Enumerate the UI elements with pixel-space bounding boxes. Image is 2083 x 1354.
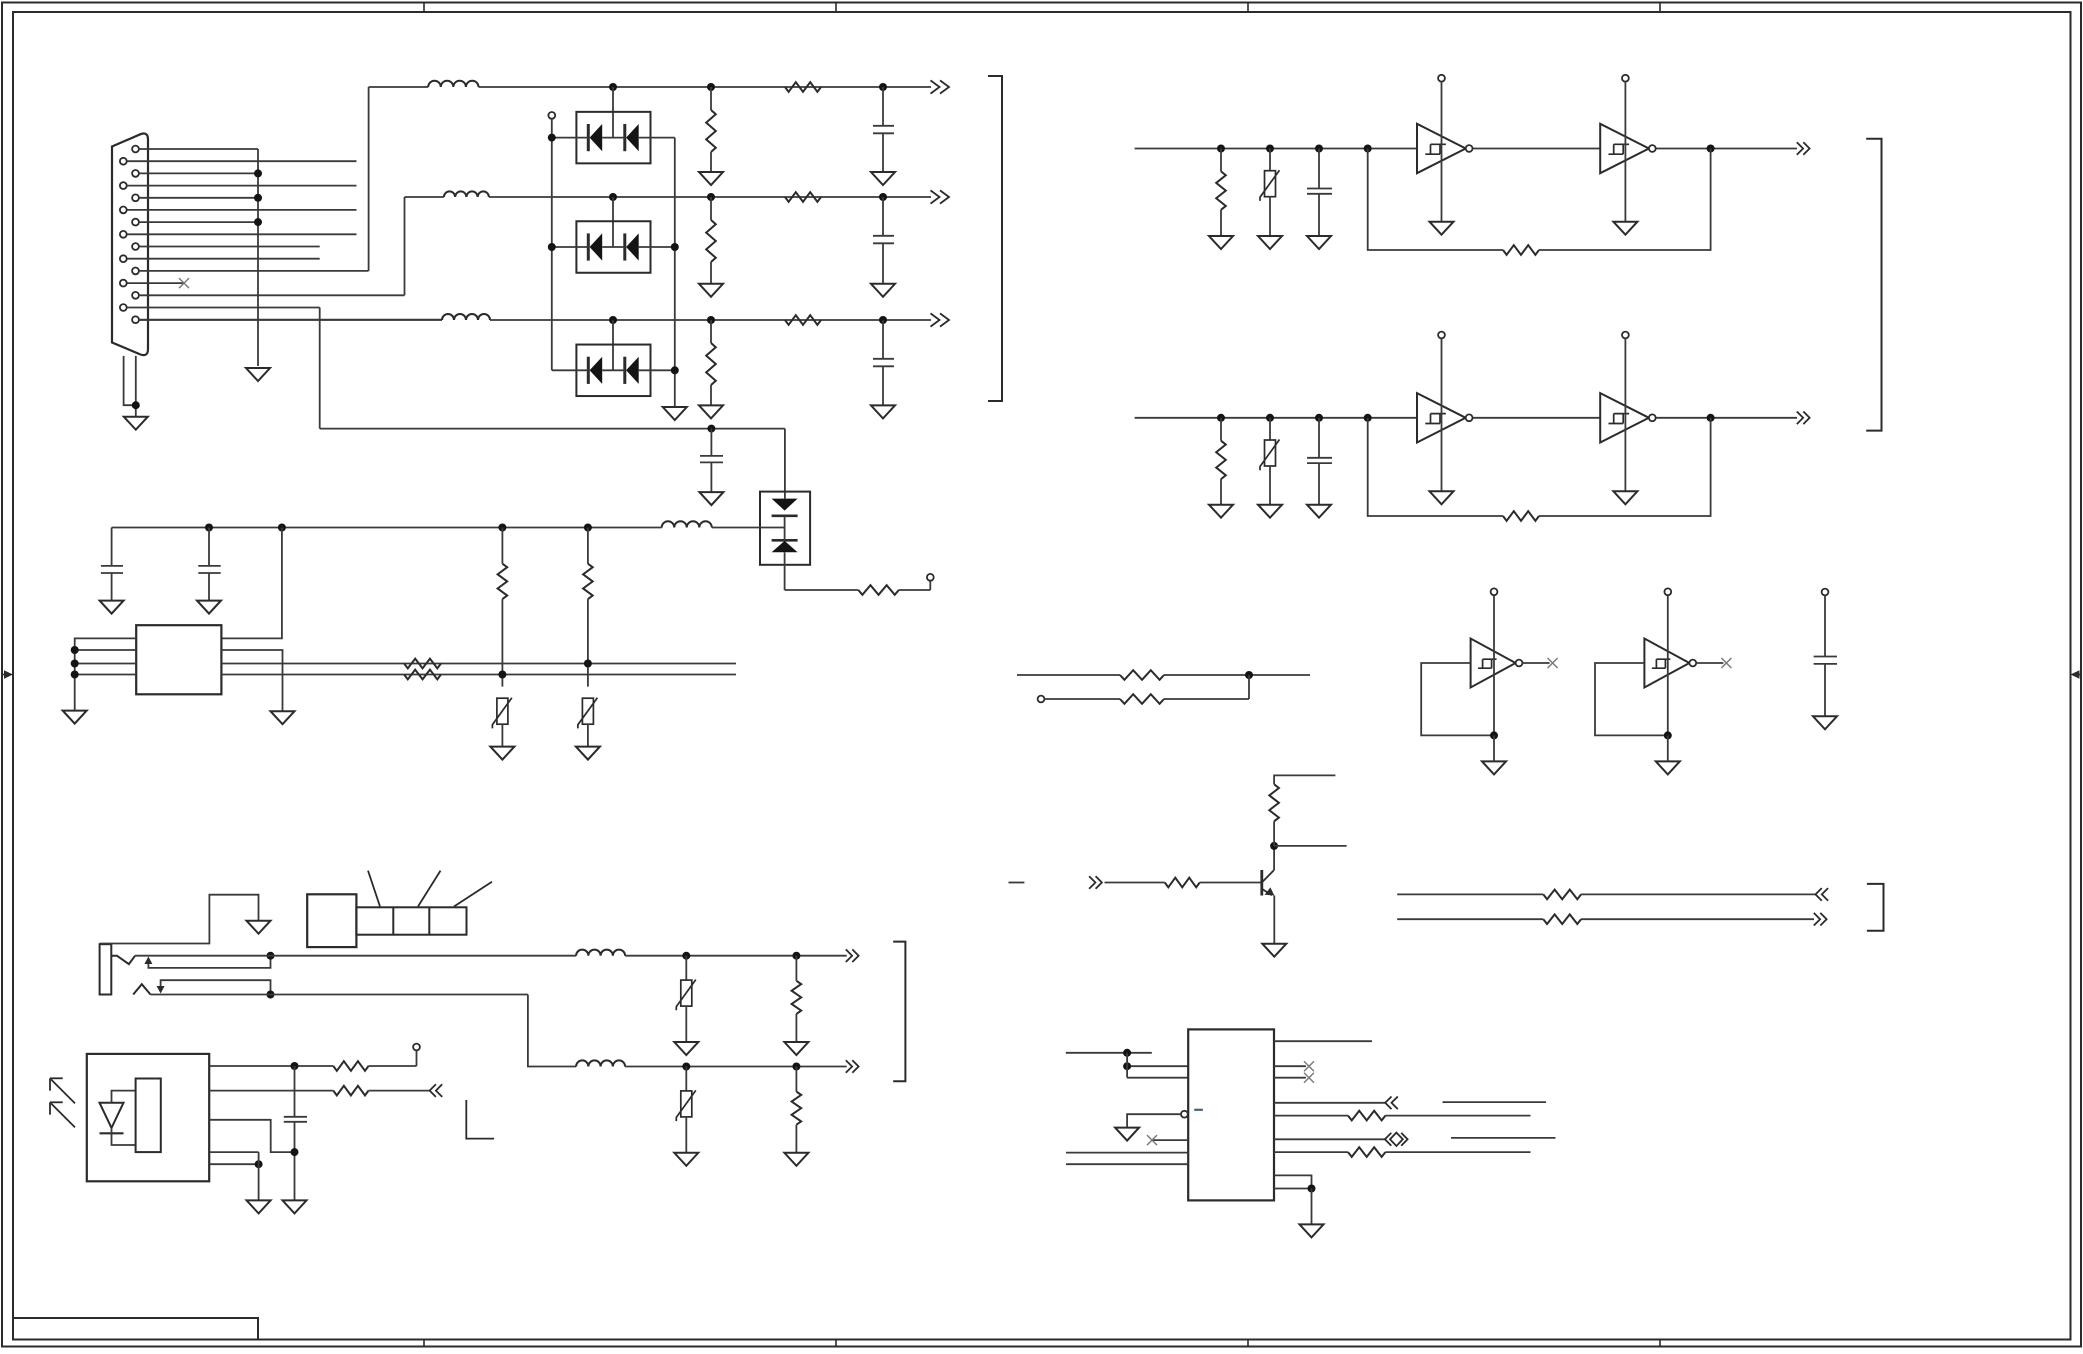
resistor feedback ch1 (1503, 245, 1539, 255)
wire U2 gnd vertical (258, 1152, 260, 1200)
wire pin 8 net (127, 233, 356, 235)
wire cell1 out stub (1522, 662, 1549, 664)
wire bus to U1 pin1 (221, 528, 282, 639)
wire TVS right vertical (674, 138, 676, 407)
inductor bottom ch y955.7 (576, 950, 625, 956)
node junction rx ch2 x1319 (1315, 414, 1323, 422)
wire shield bus vertical (257, 149, 259, 366)
wire res pair line A (1017, 674, 1120, 676)
node junction rx ch1 x1319 (1315, 145, 1323, 153)
wire U3 pin r4 (1274, 1102, 1385, 1104)
ground buffer ch1 x1625.4 (1613, 222, 1637, 235)
node junction TVS left 1 (548, 134, 556, 142)
ground C5 (100, 601, 124, 614)
capacitor C2 (882, 197, 884, 236)
wire collector out (1274, 845, 1347, 847)
wire pin 14 net (127, 307, 319, 309)
relay slash 1 (368, 871, 380, 907)
border zone tick top 1 (423, 3, 425, 13)
resistor rx ch2 pulldown (1220, 418, 1222, 441)
ground ch2 cap (871, 284, 895, 297)
resistor R3a pulldown (710, 320, 712, 343)
wire feedback ch1 right (1539, 149, 1711, 251)
wire channel 2 cont (489, 196, 931, 198)
switch arrow 1 (144, 957, 152, 965)
wire channel 1 (369, 86, 429, 88)
bracket stub lines (1867, 884, 1884, 931)
node junction gndbus y650 (71, 646, 79, 654)
varistor rx ch2 (1269, 418, 1271, 441)
terminal net4 (927, 574, 934, 581)
resistor pair B (1120, 694, 1164, 704)
node junction rx ch2 x1367.7 (1364, 414, 1372, 422)
wire U2 pin2 (209, 1090, 333, 1092)
wire channel 1 cont (479, 86, 932, 88)
wire collector up (1273, 821, 1275, 846)
TVS D2 diode a (588, 233, 602, 260)
wire Q1 base (1105, 882, 1165, 884)
wire R6 to terminal (369, 1065, 417, 1067)
pin1 marker (1194, 1109, 1203, 1111)
ground cell1 (1482, 761, 1506, 774)
node junction rx ch2 x1270 (1266, 414, 1274, 422)
wire channel 3 (140, 319, 442, 321)
TVS D1 diode b (625, 124, 639, 151)
no-connect X cell1 (1548, 658, 1558, 668)
photodiode U2 (100, 1103, 124, 1128)
terminal U3 enable (1181, 1111, 1188, 1118)
transistor Q1 (1262, 870, 1275, 896)
node junction tail (132, 401, 140, 409)
resistor pair A (1120, 670, 1164, 680)
node junction ch2 x613 (609, 193, 617, 201)
resistor R1b series (785, 82, 821, 92)
wire varistor to gnd x502.4 (501, 724, 503, 747)
node junction rx ch1 x1270 (1266, 145, 1274, 153)
connector J1 pin 12 (120, 280, 127, 287)
wire res pair line B (1044, 698, 1120, 700)
no-connect X U3 r2 (1304, 1061, 1314, 1071)
TVS D3 diode a (588, 357, 602, 384)
offpage output line 2 (1814, 913, 1827, 926)
wire U3 stub A (1066, 1052, 1152, 1054)
resistor divider x587.9 (587, 528, 589, 564)
wire net4 horizontal (320, 428, 785, 430)
node junction pin 7 bus (254, 218, 262, 226)
switch loop 2 (161, 980, 271, 994)
node junction ch3 x613 (609, 316, 617, 324)
border zone tick top 4 (1659, 3, 1661, 13)
connector J1 pin 15 (132, 316, 139, 323)
node junction x587.9 (584, 660, 592, 668)
ground varistor bottom y1066.5 (674, 1153, 698, 1166)
ground buffer ch2 x1625.4 (1613, 491, 1637, 504)
wire channel 2 (405, 196, 444, 198)
wire U3 pin r3 (1274, 1077, 1306, 1079)
schmitt buffer ch1b (1600, 124, 1649, 173)
connector J1 pin 10 (120, 255, 127, 262)
resistor R4 (858, 585, 898, 595)
offpage output ch1 (931, 80, 950, 93)
ground varistor x587.9 (576, 747, 600, 760)
wire U3 stub D (1066, 1163, 1188, 1165)
ground buffer ch2 x1441.5 (1430, 491, 1454, 504)
ground rx ch2 varistor (1258, 505, 1282, 518)
capacitor C5 (111, 528, 113, 566)
wire ch2 riser (404, 197, 406, 295)
resistor R1a pulldown (710, 87, 712, 110)
no-connect X U3 r3 (1304, 1073, 1314, 1083)
sensor inner block (136, 1079, 161, 1153)
wire sense line A (221, 663, 736, 665)
capacitor C3 (882, 320, 884, 359)
wire U3 pin r6 (1274, 1138, 1385, 1140)
wire cell1 vertical (1493, 595, 1495, 735)
offpage output rx ch2 (1797, 412, 1810, 425)
wire U3 AB join (1126, 1053, 1128, 1078)
relay slash 3 (454, 882, 492, 907)
wire U2 pin5 (209, 1163, 258, 1165)
wire TVS D3 internal (552, 369, 589, 371)
offpage input line 1 (1816, 888, 1829, 901)
wire cell2 gnd stem (1667, 735, 1669, 761)
wire U1 left pin4 (75, 674, 137, 676)
border zone tick bottom 4 (1659, 1340, 1661, 1347)
node junction bus x281.9 (278, 524, 286, 532)
wire U3 stub B (1127, 1065, 1188, 1067)
varistor bottom y1066.5 (685, 1067, 687, 1092)
regulator U1 box (136, 625, 221, 694)
node junction U2 pin1 (291, 1062, 299, 1070)
ground ch1 resistor (699, 172, 723, 185)
ground resistor bottom y955.7 (784, 1042, 808, 1055)
resistor R11 (1543, 914, 1581, 924)
resistor divider x502.4 (501, 528, 503, 564)
TVS array D1 box (576, 112, 650, 164)
offpage input Q1 (1089, 876, 1102, 889)
wire U3 pin r7 (1274, 1151, 1348, 1153)
relay contact band (356, 907, 466, 934)
resistor bottom y955.7 (795, 956, 797, 981)
connector J1 pin 8 (120, 231, 127, 238)
capacitor rx ch1 (1318, 149, 1320, 189)
resistor bottom y1066.5 (795, 1067, 797, 1092)
wire Q1 collector (1273, 846, 1275, 870)
ground rx ch1 resistor (1209, 236, 1233, 249)
node junction TVS right 3 (671, 366, 679, 374)
terminal pullup ch2 x1625.4 (1622, 332, 1629, 339)
node junction ch1 x711 (707, 83, 715, 91)
IC U3 box (1188, 1029, 1274, 1200)
corner mark (466, 1100, 494, 1139)
resistor R3b series (785, 315, 821, 325)
wire R9 top (1274, 775, 1335, 784)
bidir connector symbol U3 r6 (1385, 1133, 1408, 1146)
border center arrow left (2, 670, 13, 678)
ground U2 (247, 1200, 271, 1213)
node junction pin 5 bus (254, 194, 262, 202)
node junction rx ch1 x1221 (1217, 145, 1225, 153)
wire rxline ch1 mid (1473, 148, 1601, 150)
ground rx ch1 varistor (1258, 236, 1282, 249)
wire diode bottom (112, 1128, 136, 1145)
border center arrow right (2071, 670, 2082, 678)
wire D4 out (785, 589, 859, 591)
wire net4 drop (784, 429, 786, 499)
schmitt buffer ch2b (1600, 393, 1649, 442)
node junction resistor y1066.5 (792, 1063, 800, 1071)
TVS D4 diode bottom (772, 540, 798, 552)
photodiode bar (100, 1132, 124, 1134)
wire feedback ch1 (1368, 149, 1503, 251)
wire U2 pin4 (209, 1151, 258, 1153)
varistor rx ch1 (1269, 149, 1271, 172)
wire Q1 emitter (1273, 896, 1275, 944)
wire buffer power ch2 x1441.5 (1441, 338, 1443, 491)
border zone tick top 2 (835, 3, 837, 13)
terminal TVS left (548, 112, 555, 119)
connector J1 pin 13 (132, 292, 139, 299)
node junction line1 loop (267, 952, 275, 960)
capacitor C7 (294, 1066, 296, 1117)
inductor L2 (444, 191, 489, 197)
border zone tick bottom 1 (423, 1340, 425, 1347)
light arrow 1 (50, 1078, 75, 1103)
ground ch1 cap (871, 172, 895, 185)
wire line2 drop (528, 995, 576, 1067)
node junction collector (1270, 842, 1278, 850)
wire stub line 1 (1397, 893, 1543, 895)
ground U1 left (63, 711, 87, 724)
ground U3 enable (1115, 1128, 1139, 1141)
wire rxline ch2 out (1656, 417, 1797, 419)
terminal decoupling cap (1822, 589, 1829, 596)
wire buffer power ch1 x1625.4 (1624, 82, 1626, 222)
offpage output bottom y955.7 (846, 949, 859, 962)
resistor R8 base (1165, 878, 1200, 888)
wire U3 pin b1 (1274, 1175, 1312, 1188)
resistor R2a pulldown (710, 197, 712, 220)
ground rx ch2 resistor (1209, 505, 1233, 518)
resistor R10 (1543, 890, 1581, 900)
jack contact 1 (111, 956, 135, 964)
schmitt buffer ch1a (1417, 124, 1466, 173)
wire TVS D1 internal (552, 137, 589, 139)
node junction U3 B (1123, 1062, 1131, 1070)
bracket channel outputs (988, 76, 1002, 401)
wire pin 2 net (127, 160, 356, 162)
terminal pullup ch1 x1625.4 (1622, 75, 1629, 82)
node junction TVS right 2 (671, 243, 679, 251)
resistor R9 collector (1269, 784, 1279, 821)
wire U3 enable (1127, 1114, 1181, 1127)
ground varistor x502.4 (490, 747, 514, 760)
wire pin 15 net (140, 319, 442, 321)
TVS array D2 box (576, 221, 650, 273)
capacitor C6 (208, 528, 210, 566)
TVS D3 diode b (625, 357, 639, 384)
bracket bottom outputs (893, 942, 905, 1082)
ground ch2 resistor (699, 284, 723, 297)
terminal cell1 (1491, 588, 1498, 595)
varistor x502.4 (492, 698, 512, 729)
wire line2 (151, 994, 528, 996)
capacitor rx ch2 (1318, 418, 1320, 458)
node junction C7 bottom (291, 1148, 299, 1156)
wire U1 pin2 to gnd (221, 650, 282, 711)
wire pin 7 net (140, 221, 258, 223)
node junction cell2 (1664, 731, 1672, 739)
relay band divider 2 (428, 907, 430, 934)
wire net4 riser (319, 308, 321, 429)
ground shield bus (246, 368, 270, 381)
offpage input U2 (430, 1084, 443, 1097)
node junction rx ch2 x1221 (1217, 414, 1225, 422)
wire ch1 riser (368, 87, 370, 271)
wire U2 pin1 (209, 1065, 333, 1067)
wire right stub 2 (1451, 1137, 1556, 1139)
ground TVS right (663, 407, 687, 420)
node junction line2 loop (267, 991, 275, 999)
node junction res pair (1245, 671, 1253, 679)
connector J1 body (112, 134, 148, 356)
wire rxline ch2 (1135, 417, 1417, 419)
node junction x502.4 (498, 671, 506, 679)
ground connector tail (124, 417, 148, 430)
node junction bus x587.9 (584, 524, 592, 532)
wire pin 6 net (127, 209, 356, 211)
connector J1 pin 14 (120, 304, 127, 311)
relay box K1 (307, 894, 356, 947)
offpage input U3 r4 (1385, 1097, 1398, 1110)
jack J2 body (100, 944, 112, 994)
node junction resistor y955.7 (792, 952, 800, 960)
connector J1 pin 3 (132, 170, 139, 177)
node junction bus x502.4 (498, 524, 506, 532)
wire jack sleeve to gnd jog (100, 895, 259, 944)
node junction cell1 (1490, 731, 1498, 739)
ground buffer ch1 x1441.5 (1430, 222, 1454, 235)
ground C7 (283, 1200, 307, 1213)
inductor bottom ch y1066.5 (576, 1060, 625, 1066)
wire L4 to D4 (712, 527, 785, 529)
offpage output ch3 (931, 313, 950, 326)
wire line1 (135, 955, 576, 957)
schmitt inverter cell2 (1644, 639, 1689, 688)
resistor R13 (1348, 1147, 1385, 1157)
resistor R6 (333, 1061, 368, 1071)
wire U3 pin r1 (1274, 1040, 1372, 1042)
node junction net4 cap (707, 425, 715, 433)
wire bottom ch y955.7 (625, 955, 847, 957)
connector J1 pin 7 (132, 219, 139, 226)
node junction bus x209 (205, 524, 213, 532)
ground U3 (1300, 1224, 1324, 1237)
wire cell1 gnd stem (1493, 735, 1495, 761)
ground jack sleeve (247, 921, 271, 934)
node junction rx ch1 x1710.6 (1707, 145, 1715, 153)
resistor R2b series (785, 192, 821, 202)
wire R4 to terminal (899, 589, 931, 591)
capacitor C4 (710, 429, 712, 456)
ground rx ch1 cap (1307, 236, 1331, 249)
wire U3 pin r2 (1274, 1065, 1306, 1067)
TVS pair D4 box (760, 492, 810, 565)
wire U1 left pin3 (75, 663, 137, 665)
offpage output rx ch1 (1797, 142, 1810, 155)
wire right stub 1 (1443, 1101, 1547, 1103)
inductor L1 (428, 81, 478, 87)
wire diode top (112, 1091, 136, 1103)
wire rxline ch1 (1135, 148, 1417, 150)
node junction gndbus y674.5 (71, 671, 79, 679)
resistor R12 (1348, 1111, 1385, 1121)
varistor x587.9 (578, 698, 598, 729)
inductor L4 (662, 521, 712, 527)
no-connect X pin 12 (179, 278, 189, 288)
terminal res pair B (1038, 696, 1045, 703)
wire rxline ch1 out (1656, 148, 1797, 150)
wire ch3 TVS tap (612, 320, 614, 370)
wire connector tail left (124, 356, 136, 405)
wire feedback ch2 (1368, 418, 1503, 516)
wire cell2 out stub (1696, 662, 1723, 664)
wire R8 to base (1200, 882, 1262, 884)
switch arrow 2 (157, 986, 165, 994)
wire cell2 feedback (1595, 663, 1668, 735)
ground ch3 cap (871, 405, 895, 418)
wire TVS D2 internal (552, 246, 589, 248)
ground U1 pin2 (271, 711, 295, 724)
node junction ch1 x883 (879, 83, 887, 91)
ground rx ch2 cap (1307, 505, 1331, 518)
wire U3 pin b2 (1274, 1188, 1312, 1190)
wire pin 13 net (140, 294, 405, 296)
wire pin 12 net (127, 282, 184, 284)
node junction ch3 x883 (879, 316, 887, 324)
connector J1 pin 11 (132, 268, 139, 275)
wire pin 3 net (140, 172, 258, 174)
no-connect X cell2 (1721, 658, 1731, 668)
node junction gndbus y663.5 (71, 660, 79, 668)
sensor U2 box (87, 1054, 209, 1181)
wire sense line B (221, 674, 736, 676)
resistor rx ch1 pulldown (1220, 149, 1222, 172)
node junction varistor y955.7 (682, 952, 690, 960)
ground cell2 (1656, 761, 1680, 774)
relay slash 2 (418, 871, 441, 907)
ground C4 (699, 492, 723, 505)
terminal pullup ch2 x1441.5 (1438, 332, 1445, 339)
wire buffer power ch1 x1441.5 (1441, 82, 1443, 222)
wire U1 left pin1 (75, 638, 137, 710)
ground varistor bottom y955.7 (674, 1042, 698, 1055)
offpage output ch2 (931, 190, 950, 203)
connector J1 pin 4 (120, 182, 127, 189)
schmitt buffer ch2a (1417, 393, 1466, 442)
varistor bottom y955.7 (685, 956, 687, 981)
wire R7 out (369, 1090, 430, 1092)
title block (13, 1318, 258, 1340)
node junction ch2 x711 (707, 193, 715, 201)
node junction varistor y1066.5 (682, 1063, 690, 1071)
wire power bus (112, 527, 662, 529)
node junction TVS left 2 (548, 243, 556, 251)
connector J1 pin 5 (132, 194, 139, 201)
resistor R5a (404, 659, 441, 669)
light arrow 2 (50, 1102, 75, 1127)
TVS D4 diode top (772, 499, 798, 516)
